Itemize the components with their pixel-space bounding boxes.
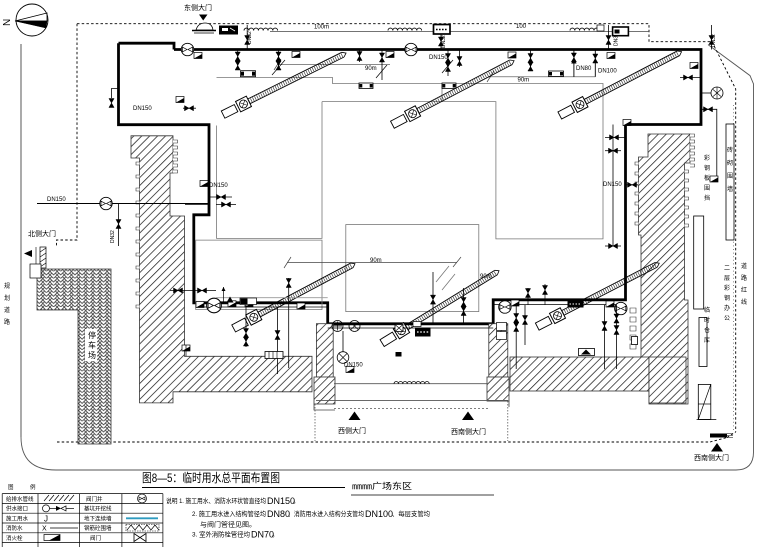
right fence ticked line	[733, 105, 735, 432]
gate booth NW	[30, 264, 41, 278]
svg-text:DN150: DN150	[209, 183, 228, 189]
svg-text:DN150: DN150	[133, 106, 152, 112]
guard box NE on fence	[613, 27, 629, 36]
svg-text:消防水: 消防水	[6, 524, 23, 532]
black boxes on fence right	[434, 25, 451, 35]
tower crane 5 (bottom-middle)	[379, 266, 502, 348]
riser x604.5	[604, 305, 606, 369]
stub west of ring	[112, 89, 119, 99]
svg-text:供水接口: 供水接口	[6, 505, 28, 513]
title text	[142, 471, 494, 495]
parking lot (herringbone paving)	[37, 269, 111, 444]
gate triangle south 1	[349, 412, 361, 421]
DN32 branch top right	[711, 25, 713, 50]
svg-text:DN70: DN70	[251, 530, 274, 540]
svg-text:DN80: DN80	[267, 509, 290, 519]
comb teeth west strip right edge	[173, 140, 178, 173]
south pipe east segment	[493, 304, 625, 306]
guard house black box	[219, 26, 238, 35]
hydrant circle right	[701, 92, 711, 94]
svg-text:DN100: DN100	[598, 69, 617, 75]
svg-text:DN32: DN32	[110, 230, 116, 243]
svg-text:、消防用水进入结构分支管均: 、消防用水进入结构分支管均	[288, 509, 364, 518]
building west wing + SW band hatched	[131, 136, 312, 403]
top gate triangle	[199, 15, 208, 21]
pipe to west wing y291	[170, 290, 216, 292]
svg-text:办: 办	[724, 304, 730, 312]
svg-text:临: 临	[704, 306, 710, 314]
legend table	[2, 494, 163, 547]
svg-text:时: 时	[704, 316, 710, 324]
svg-text:例: 例	[30, 483, 36, 491]
svg-text:㎜㎜广场东区: ㎜㎜广场东区	[352, 481, 413, 491]
equipment box B1	[241, 71, 256, 77]
pump box	[413, 322, 421, 327]
svg-text:DN32: DN32	[247, 31, 253, 44]
tower crane 1 (top-left)	[220, 48, 348, 120]
svg-text:地下连续墙: 地下连续墙	[84, 514, 112, 522]
svg-text:DN80: DN80	[576, 66, 592, 72]
svg-text:道: 道	[4, 306, 10, 314]
tower crane 3 (top-right)	[557, 46, 684, 120]
inner courtyard west	[196, 240, 322, 309]
risers into SE building	[515, 305, 517, 369]
small riser with arrow x223	[223, 287, 225, 303]
svg-text:阀门井: 阀门井	[86, 495, 103, 503]
bushes rows on top fence	[244, 28, 278, 30]
svg-text:图: 图	[8, 483, 14, 491]
equipment box B2	[359, 83, 373, 89]
pump box on east pipe	[568, 301, 584, 308]
west road edge line	[20, 44, 22, 437]
inner corner stub + valve	[183, 107, 196, 109]
water meter on west supply	[100, 197, 112, 209]
svg-text:围: 围	[704, 185, 710, 192]
ladder symbol	[265, 352, 283, 359]
break mark in central rect	[436, 266, 455, 290]
svg-text:说明 1. 施工用水、消防水环状管直径均: 说明 1. 施工用水、消防水环状管直径均	[166, 496, 266, 505]
DN32 stub south of west supply	[118, 204, 120, 247]
water meter top-left on ring	[181, 43, 193, 55]
site fence dashed bottom	[57, 441, 710, 443]
svg-text:阀门: 阀门	[90, 534, 101, 542]
svg-text:100: 100	[516, 24, 527, 30]
stub + valves near ring jog	[209, 196, 232, 198]
comb teeth east strip left edge	[635, 162, 639, 225]
svg-text:西南侧大门: 西南侧大门	[451, 427, 486, 436]
svg-text:路: 路	[4, 318, 10, 326]
riser x525	[524, 305, 526, 345]
marker triangle on south pipe	[227, 297, 234, 303]
svg-text:挡: 挡	[704, 194, 710, 202]
door rects below ring SE corner	[497, 323, 507, 331]
top branch DN32 at gate	[246, 25, 248, 50]
gate triangle south 2	[462, 412, 474, 421]
DN32 branch mid right	[608, 25, 610, 50]
svg-text:围: 围	[727, 173, 733, 180]
east wing inner pipe stubs	[612, 125, 614, 159]
dimension line 90m bottom	[287, 262, 457, 264]
svg-text:公: 公	[724, 315, 730, 322]
svg-text:北侧大门: 北侧大门	[28, 229, 56, 238]
building SE band hatched	[510, 357, 649, 391]
svg-text:层: 层	[724, 275, 730, 282]
svg-text:消火栓: 消火栓	[6, 534, 23, 542]
box with triangle on SE band	[579, 349, 595, 356]
svg-text:路: 路	[741, 274, 747, 282]
site fence dashed top/left	[77, 24, 736, 432]
svg-text:仓: 仓	[704, 326, 710, 334]
half-black equipment box on south pipe	[240, 298, 257, 305]
shed with diagonal bottom-right	[698, 384, 711, 419]
svg-text:基坑开挖线: 基坑开挖线	[84, 505, 112, 513]
riser stub with valve x382	[381, 50, 383, 81]
svg-text:砖: 砖	[727, 146, 733, 154]
small black marker at entrance	[396, 352, 402, 357]
south inner pipe west segment	[196, 306, 328, 308]
right edge vertical texts	[704, 146, 747, 344]
tower crane 2 (top-middle)	[390, 56, 517, 130]
svg-text:3. 室外消防栓管径均: 3. 室外消防栓管径均	[192, 530, 250, 539]
svg-text:DN150: DN150	[267, 496, 295, 506]
svg-text:钢筋砼围墙: 钢筋砼围墙	[84, 524, 112, 532]
comb teeth east strip right edge	[690, 134, 695, 167]
parking label	[85, 329, 97, 361]
SW gate bottom right	[710, 434, 727, 438]
svg-text:线: 线	[741, 298, 747, 306]
tower crane 4 (bottom-left)	[231, 259, 358, 334]
svg-text:施工用水: 施工用水	[6, 514, 29, 522]
svg-text:DN150: DN150	[429, 55, 448, 61]
south entrance pier left	[316, 324, 333, 378]
water meter top-right on ring	[405, 43, 417, 55]
central courtyard rectangle	[346, 225, 479, 312]
DN100 branch	[594, 50, 596, 77]
svg-text:90m: 90m	[365, 66, 377, 72]
equipment box B4	[549, 71, 564, 77]
notes text	[166, 496, 430, 540]
south entrance roadway	[334, 383, 488, 385]
main temporary water ring DN150 (thick)	[119, 43, 702, 324]
svg-text:东侧大门: 东侧大门	[184, 3, 212, 12]
svg-text:砌: 砌	[727, 159, 733, 167]
gate booth car symbol	[196, 23, 213, 30]
stub valves above east pipe	[527, 288, 529, 305]
right side stub + valve	[680, 77, 701, 79]
svg-text:钢: 钢	[724, 294, 730, 302]
svg-text:N: N	[2, 19, 13, 26]
svg-text:X: X	[42, 526, 47, 533]
svg-text:二: 二	[724, 266, 730, 272]
svg-text:100m: 100m	[314, 25, 329, 31]
hydrant circle-cross at south entrance	[337, 352, 349, 364]
legend symbols	[44, 495, 74, 501]
svg-text:钢: 钢	[704, 164, 710, 172]
svg-text:墙: 墙	[727, 185, 733, 193]
svg-text:划: 划	[4, 294, 10, 302]
svg-text:90m: 90m	[480, 274, 492, 280]
svg-text:库: 库	[704, 336, 710, 344]
svg-text:板: 板	[704, 174, 710, 182]
riser stubs into SW building	[277, 307, 279, 374]
riser with valves x246	[245, 303, 247, 347]
svg-text:图8—5：临时用水总平面布置图: 图8—5：临时用水总平面布置图	[142, 471, 280, 485]
north arrow compass	[2, 4, 48, 36]
svg-text:DN150: DN150	[47, 197, 66, 203]
svg-text:DN32: DN32	[711, 34, 717, 47]
equipment box B3	[442, 83, 456, 89]
risers to ring bottom middle	[432, 272, 434, 324]
svg-text:规: 规	[4, 282, 10, 290]
svg-text:停: 停	[88, 330, 96, 340]
DN80 branch	[573, 50, 575, 77]
svg-text:90m: 90m	[518, 78, 530, 84]
west supply pipe DN150	[37, 203, 209, 205]
svg-text:。: 。	[293, 498, 300, 505]
svg-text:。: 。	[272, 532, 279, 539]
svg-text:与阀门管径见图。: 与阀门管径见图。	[200, 520, 256, 529]
south entrance pier right	[489, 324, 508, 378]
site outer boundary	[21, 45, 754, 470]
building east wing hatched	[639, 134, 691, 404]
DN32 branch at guard box	[440, 34, 442, 50]
svg-text:西侧大门: 西侧大门	[338, 426, 366, 435]
svg-text:车: 车	[88, 340, 96, 350]
road edge line along north fence	[270, 31, 649, 33]
svg-text:DN32: DN32	[441, 35, 447, 48]
inner building thin outlines	[217, 102, 323, 239]
svg-text:道: 道	[741, 262, 747, 270]
svg-text:场: 场	[88, 351, 96, 360]
svg-text:2. 施工用水进入结构管径均: 2. 施工用水进入结构管径均	[192, 509, 266, 518]
svg-text:、每层支管均: 、每层支管均	[392, 509, 430, 518]
hydrant flags along top ring	[194, 53, 202, 59]
tower crane 6 (bottom-right)	[534, 258, 662, 331]
pipe out to east hydrant	[701, 109, 717, 176]
svg-text:90m: 90m	[370, 258, 382, 264]
svg-text:彩: 彩	[704, 154, 710, 162]
svg-text:J: J	[44, 515, 48, 524]
comb teeth west strip left edge	[136, 162, 140, 308]
svg-text:给排水管线: 给排水管线	[6, 495, 34, 503]
building south inner edge line	[216, 297, 328, 299]
valves hanging from top ring	[237, 50, 239, 71]
svg-text:彩: 彩	[724, 284, 730, 292]
right side sheds	[694, 216, 704, 309]
dimension line 90m left	[277, 64, 390, 66]
flag on SW band	[182, 345, 190, 351]
svg-text:红: 红	[741, 286, 747, 294]
bushes row at south entrance	[394, 382, 429, 384]
svg-text:DN100: DN100	[365, 509, 393, 519]
svg-text:西南侧大门: 西南侧大门	[694, 453, 729, 462]
small booth on north fence	[597, 25, 604, 31]
south pipe middle segment	[328, 327, 494, 329]
pier step details	[314, 401, 509, 410]
dimension line 90m right	[488, 76, 595, 78]
